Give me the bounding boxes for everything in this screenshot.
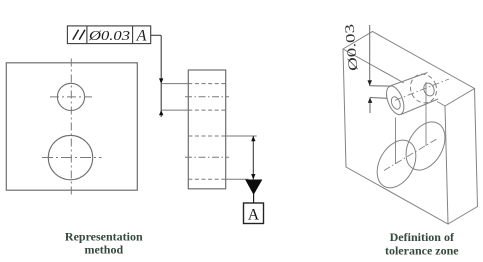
svg-text:A: A <box>248 207 260 224</box>
hidden line top hole lower <box>188 109 225 111</box>
dimension line lower with arrow <box>369 98 371 114</box>
hidden line bottom hole upper <box>188 135 225 137</box>
svg-text:A: A <box>136 28 147 45</box>
svg-text:tolerance zone: tolerance zone <box>385 244 459 258</box>
centerline bottom hole <box>185 156 229 158</box>
3D block front face <box>343 49 448 224</box>
leader vertical line <box>160 35 162 117</box>
projection line left hole <box>395 118 397 165</box>
side view rectangle <box>188 70 225 189</box>
hole H2 (bottom circle) <box>48 135 92 179</box>
svg-text:Representation: Representation <box>65 230 143 244</box>
centerline top hole <box>185 96 229 98</box>
hole H2 horizontal centerline <box>42 157 102 159</box>
3D block top face <box>343 32 475 107</box>
axis line between holes <box>384 139 438 171</box>
tolerance cylinder cap inner <box>390 95 402 110</box>
datum extension line upper <box>226 135 257 137</box>
datum extension line lower <box>226 178 249 180</box>
extension line lower <box>161 109 188 111</box>
front view plate outline <box>6 63 137 190</box>
svg-text:Ø0.03: Ø0.03 <box>88 29 130 44</box>
projection line right hole <box>425 82 427 146</box>
leader from frame <box>151 34 162 36</box>
arrow down at datum dimension <box>251 174 255 179</box>
datum stem <box>253 194 255 203</box>
datum triangle <box>246 180 262 194</box>
cylinder axis dash-dot <box>395 79 449 100</box>
hidden line top hole upper <box>188 83 225 85</box>
hole H1 horizontal centerline <box>50 96 92 98</box>
parallelism symbol // <box>73 30 85 40</box>
tolerance cylinder bottom silhouette <box>401 99 438 115</box>
3D hole ellipse left <box>369 133 423 194</box>
tolerance cylinder dashed face ellipse <box>406 70 441 107</box>
dimension extension upper <box>370 85 390 87</box>
tolerance cylinder far bore <box>422 82 436 98</box>
dimension line upper with arrow <box>369 25 371 86</box>
datum dimension line <box>252 136 254 179</box>
hidden line bottom hole lower <box>188 178 225 180</box>
datum A box <box>244 203 264 224</box>
feature control frame <box>67 26 150 44</box>
extension line upper <box>161 83 188 85</box>
svg-text:Definition of: Definition of <box>390 230 455 244</box>
hole H1 (top circle) <box>57 83 84 110</box>
tolerance cylinder top silhouette <box>390 73 428 87</box>
dimension extension lower <box>370 97 388 100</box>
arrow at lower extension <box>159 110 163 115</box>
tolerance cylinder cap outer <box>383 84 407 117</box>
arrow at upper extension <box>159 78 163 83</box>
3D block right face <box>448 89 478 225</box>
3D hole ellipse right <box>398 115 453 177</box>
svg-text:method: method <box>84 243 123 257</box>
arrow up at datum dimension <box>251 136 255 141</box>
front view vertical centerline <box>70 59 72 195</box>
